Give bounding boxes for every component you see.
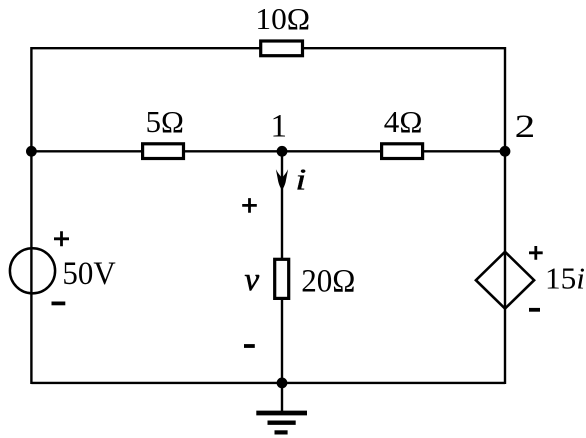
- label v minus sign: [244, 344, 255, 348]
- svg-text:20Ω: 20Ω: [301, 263, 355, 299]
- svg-text:15i: 15i: [545, 260, 585, 295]
- svg-text:i: i: [295, 162, 306, 196]
- wire top (x=31..505 at y=48): [31, 47, 505, 49]
- node A junction dot (left, middle wire meets left branch): [26, 146, 37, 157]
- node 1 junction dot: [277, 146, 288, 157]
- ground symbol bar 1: [256, 411, 307, 416]
- wire middle vertical (node 1 through 20ohm to ground node): [281, 151, 283, 413]
- svg-text:5Ω: 5Ω: [146, 104, 184, 139]
- resistor 4ohm (right middle branch): [382, 144, 423, 159]
- ground symbol bar 2: [268, 421, 296, 425]
- voltage source 50V (circle): [10, 248, 55, 293]
- node 2 junction dot: [500, 146, 511, 157]
- svg-text:4Ω: 4Ω: [384, 104, 423, 139]
- svg-text:10Ω: 10Ω: [255, 1, 310, 36]
- resistor 20ohm (vertical, middle branch): [275, 259, 289, 298]
- wire middle horizontal (left node to node 1 to node 2): [31, 150, 505, 152]
- svg-text:v: v: [245, 262, 260, 298]
- wire left vertical branch (through 50V source): [30, 47, 32, 384]
- wire bottom (ground rail): [31, 382, 505, 384]
- dependent source 15i (diamond): [476, 252, 534, 309]
- ground symbol bar 3: [275, 430, 288, 434]
- svg-text:50V: 50V: [62, 256, 115, 292]
- ground node junction dot (bottom of 20ohm branch): [277, 378, 288, 389]
- 15i plus sign: [529, 246, 543, 260]
- svg-text:1: 1: [271, 109, 288, 145]
- label v plus sign: [242, 198, 257, 213]
- 15i minus sign: [529, 308, 540, 312]
- resistor 10ohm (top branch): [261, 41, 303, 56]
- svg-text:2: 2: [515, 109, 536, 145]
- 50V minus sign: [52, 301, 66, 305]
- current arrow i (downward at node 1): [276, 169, 288, 190]
- 50V plus sign: [54, 231, 69, 246]
- resistor 5ohm (left middle branch): [143, 144, 184, 159]
- wire right vertical branch (through 15i source): [504, 47, 506, 384]
